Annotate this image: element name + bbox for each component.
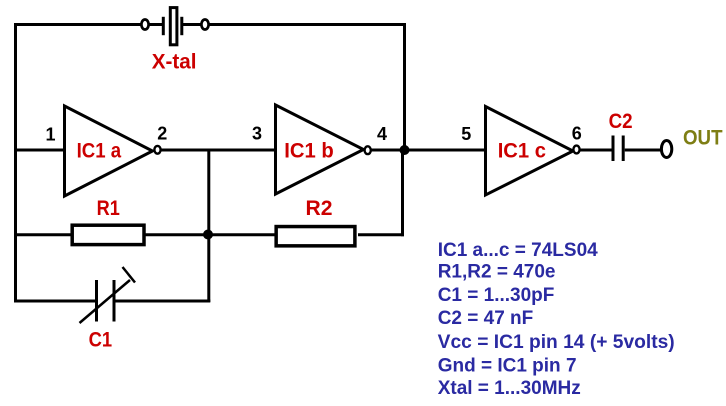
svg-text:IC1 c: IC1 c: [498, 139, 547, 162]
capacitor C1 left plate: [95, 280, 98, 322]
svg-text:IC1 a...c = 74LS04: IC1 a...c = 74LS04: [438, 240, 598, 261]
wire R2 up to pin 4 node: [401, 150, 404, 236]
svg-text:Gnd = IC1 pin 7: Gnd = IC1 pin 7: [438, 356, 577, 377]
wire pin 6 to C2: [581, 149, 613, 152]
crystal X-tal right terminal: [201, 20, 208, 30]
svg-text:C1: C1: [89, 328, 113, 351]
svg-text:4: 4: [377, 124, 387, 144]
svg-text:R2: R2: [306, 197, 333, 220]
capacitor C2 right plate: [622, 136, 625, 162]
op-amp inverter IC1 b: [276, 105, 364, 194]
crystal X-tal body: [170, 8, 177, 45]
junction node at IC1 b output: [400, 145, 410, 155]
svg-text:IC1 a: IC1 a: [77, 139, 122, 162]
op-amp inverter IC1 a: [65, 106, 153, 196]
capacitor C1 right plate: [113, 280, 116, 322]
crystal X-tal left terminal: [141, 20, 148, 30]
wire bottom left: [14, 300, 95, 303]
junction node R1/R2/C1: [203, 230, 213, 240]
capacitor C1 trimmer arrow T-bar: [123, 267, 136, 283]
wire pin 1 input: [14, 149, 66, 152]
wire R1 left: [14, 233, 71, 236]
wire R1 right to R2 left: [146, 233, 275, 236]
svg-text:R1: R1: [97, 197, 120, 220]
inverter IC1 a output bubble: [154, 146, 160, 154]
capacitor C2 left plate: [612, 136, 615, 162]
svg-text:C2: C2: [609, 110, 633, 133]
wire top horizontal between crystal and right terminal: [183, 23, 201, 26]
wire top horizontal between left terminal and crystal: [150, 23, 163, 26]
capacitor C1 trimmer arrow shaft: [80, 280, 131, 323]
wire C1 right to middle vertical: [116, 300, 211, 303]
crystal X-tal right plate: [180, 17, 183, 35]
wire right vertical upper: [403, 24, 406, 152]
svg-text:C1 = 1...30pF: C1 = 1...30pF: [438, 285, 555, 306]
svg-text:X-tal: X-tal: [152, 50, 197, 73]
wire C2 to OUT: [625, 149, 661, 152]
inverter IC1 c output bubble: [573, 146, 579, 154]
wire pin 2 to pin 3: [161, 149, 277, 152]
resistor R1: [72, 225, 144, 244]
resistor R2: [276, 227, 355, 246]
svg-text:C2 = 47 nF: C2 = 47 nF: [438, 308, 534, 329]
inverter IC1 b output bubble: [365, 146, 371, 154]
svg-text:2: 2: [157, 124, 167, 144]
wire top horizontal left segment: [14, 23, 141, 26]
svg-text:6: 6: [572, 124, 582, 144]
OUT terminal: [661, 141, 671, 158]
crystal X-tal left plate: [162, 17, 165, 35]
svg-text:5: 5: [461, 124, 471, 144]
svg-text:R1,R2 = 470e: R1,R2 = 470e: [438, 261, 556, 282]
wire top horizontal right segment: [210, 23, 407, 26]
svg-text:1: 1: [46, 125, 56, 145]
wire pin 4 to pin 5: [372, 149, 488, 152]
wire middle vertical: [207, 150, 210, 302]
op-amp inverter IC1 c: [486, 107, 574, 196]
svg-text:3: 3: [252, 124, 262, 144]
svg-text:Xtal = 1...30MHz: Xtal = 1...30MHz: [438, 378, 581, 399]
svg-text:OUT: OUT: [683, 126, 723, 149]
svg-text:Vcc = IC1 pin 14 (+ 5volts): Vcc = IC1 pin 14 (+ 5volts): [438, 332, 675, 353]
wire R2 right: [358, 233, 404, 236]
svg-text:IC1 b: IC1 b: [284, 140, 334, 163]
wire left vertical: [14, 23, 17, 303]
